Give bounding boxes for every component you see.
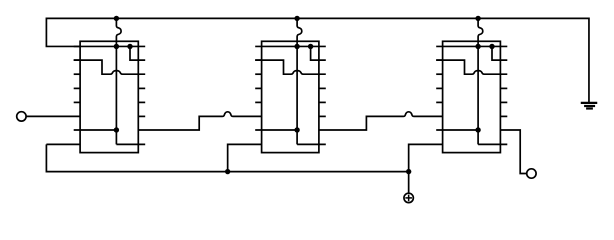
wire U2 squiggle leg from top bus (297, 18, 302, 46)
IC U3 body (443, 41, 501, 152)
U3 pin 12 stub (right) (500, 101, 507, 103)
U3 pin 2 stub (left) (436, 59, 442, 61)
wire U3 pin 1 row across to pin 16 (436, 45, 507, 47)
junction dot U1 pin1-row right (127, 44, 132, 49)
U1 pin 2 stub (left) (74, 59, 80, 61)
U1 pin 5 stub (left) (74, 101, 80, 103)
wire U1 pin 1 row across to pin 16 (74, 45, 146, 47)
wire rail corner to U1 pin 9 (46, 143, 80, 145)
wire U3 pin 15 L-drop (492, 46, 507, 60)
plus sign of V+ terminal (405, 195, 412, 202)
wire top bus: drop to U1 pin1 row, bus, drop to ground (46, 18, 589, 102)
U1 pin 11 stub (right) (138, 115, 145, 117)
wire U3 center vertical (477, 46, 479, 144)
terminal J2 output circle (527, 169, 536, 178)
wire J1 to U1 pin 6 (26, 115, 80, 117)
wire U1 squiggle leg from top bus (116, 18, 121, 46)
U3 pin 3 stub (left) (436, 73, 442, 75)
wire U1 center vertical (115, 46, 117, 144)
wire U1 pin 10 to U2 pin 6 with hop (138, 112, 261, 130)
wire U3 pin 2 step to pin 14 with hop (436, 60, 507, 74)
wire U3 squiggle leg from top bus (478, 18, 483, 46)
junction dot U1 top bus tap (114, 16, 119, 21)
wire U1 pin 9 row (116, 143, 145, 145)
wire U1 pin 2 step to pin 14 with hop (74, 60, 146, 74)
wire rail riser to U3 pin 9 (409, 144, 443, 171)
terminal V+ supply circle (404, 193, 413, 202)
IC U2 body (262, 41, 319, 152)
wire bottom supply rail (46, 144, 408, 171)
wire rail riser to U2 pin 9 (228, 144, 262, 171)
wire U2 pin 1 row across to pin 16 (255, 45, 326, 47)
junction dot U2 pin 10 node (294, 127, 299, 132)
U1 pin 4 stub (left) (74, 87, 80, 89)
wire U2 pin 9 row (297, 143, 326, 145)
U3 pin 4 stub (left) (436, 87, 442, 89)
U3 pin 5 stub (left) (436, 101, 442, 103)
terminal J1 input circle (17, 112, 26, 121)
U2 pin 5 stub (left) (255, 101, 261, 103)
junction dot U3 pin1-row left (475, 44, 480, 49)
wire U3 pin 10 row (436, 129, 478, 131)
U2 pin 12 stub (right) (319, 101, 326, 103)
U2 pin 11 stub (right) (319, 115, 326, 117)
junction dot U3 pin 10 node (475, 127, 480, 132)
U2 pin 3 stub (left) (255, 73, 261, 75)
U3 pin 13 stub (right) (500, 87, 507, 89)
wire rail drop to V+ terminal (408, 172, 410, 194)
junction dot U2 top bus tap (294, 16, 299, 21)
junction dot U1 pin 10 node (114, 127, 119, 132)
wire U2 pin 10 to U3 pin 6 with hop (319, 112, 443, 130)
junction dot U2 pin1-row left (294, 44, 299, 49)
wire U1 pin 15 L-drop (130, 46, 145, 60)
U1 pin 13 stub (right) (138, 87, 145, 89)
U1 pin 3 stub (left) (74, 73, 80, 75)
U2 pin 4 stub (left) (255, 87, 261, 89)
wire U2 pin 2 step to pin 14 with hop (255, 60, 326, 74)
junction dot U2 pin1-row right (308, 44, 313, 49)
ground GND symbol (581, 103, 598, 109)
junction dot rail node A (225, 169, 230, 174)
U2 pin 2 stub (left) (255, 59, 261, 61)
wire U2 pin 15 L-drop (311, 46, 326, 60)
junction dot rail node B (406, 169, 411, 174)
junction dot U1 pin1-row left (114, 44, 119, 49)
wire U1 pin 10 row (74, 129, 117, 131)
wire U3 pin 10 to output J2 (500, 130, 526, 174)
junction dot U3 pin1-row right (489, 44, 494, 49)
wire U2 center vertical (296, 46, 298, 144)
wire U3 pin 9 row (478, 143, 507, 145)
wire U2 pin 10 row (255, 129, 297, 131)
U3 pin 11 stub (right) (500, 115, 507, 117)
IC U1 body (80, 41, 138, 152)
junction dot U3 top bus tap (475, 16, 480, 21)
U2 pin 13 stub (right) (319, 87, 326, 89)
U1 pin 12 stub (right) (138, 101, 145, 103)
